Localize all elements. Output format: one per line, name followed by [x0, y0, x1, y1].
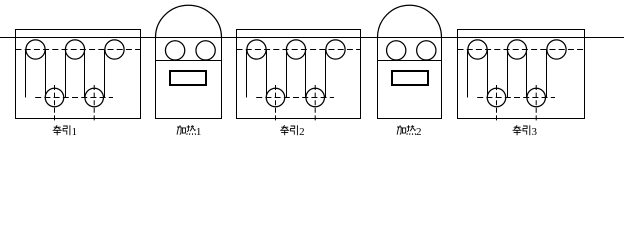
label "牵引1" under traction unit 1	[53, 125, 70, 135]
label "加热2" under heater unit 2	[397, 125, 416, 135]
svg-text:2: 2	[416, 126, 422, 138]
traction unit 2 bottom roller 2	[306, 88, 325, 107]
traction unit 2 top roller 1	[247, 40, 266, 59]
traction unit 3 bottom roller 1	[487, 88, 506, 107]
svg-text:1: 1	[196, 126, 202, 138]
traction unit 1 top roller 1	[26, 40, 45, 59]
traction unit 2 bottom roller 2 vertical center mark (dashed)	[314, 85, 316, 121]
svg-text:1: 1	[72, 126, 78, 138]
traction unit 2 top roller 2	[286, 40, 305, 59]
heater unit 2 roller 1	[387, 41, 406, 60]
svg-text:2: 2	[299, 126, 305, 138]
traction unit 2 bottom roller 1 vertical center mark (dashed)	[275, 85, 277, 121]
heater unit 2 shelf line	[378, 60, 442, 62]
traction unit 3 bottom roller 2 vertical center mark (dashed)	[535, 85, 537, 121]
heater unit 2 dome	[378, 5, 442, 37]
traction unit 3 top roller 1	[468, 40, 487, 59]
traction unit 3 bottom roller centerline (dashed)	[477, 97, 555, 99]
heater unit 1 roller 2	[196, 41, 215, 60]
traction unit 3 top roller 3	[547, 40, 566, 59]
label "牵引2" under traction unit 2	[280, 125, 297, 135]
svg-text:3: 3	[532, 126, 538, 138]
heater unit 1 roller 1	[165, 41, 184, 60]
wire line across full width	[0, 37, 624, 39]
traction unit 1 bottom roller 2	[85, 88, 104, 107]
traction unit 1 top roller 2	[65, 40, 84, 59]
heater unit 2 roller 2	[417, 41, 436, 60]
traction unit 1 bottom roller 2 vertical center mark (dashed)	[93, 85, 95, 121]
traction unit 1 top roller 3	[105, 40, 124, 59]
traction unit 2 belt lines	[247, 50, 326, 98]
traction unit 3 bottom roller 1 vertical center mark (dashed)	[496, 85, 498, 121]
traction unit 1 bottom roller 1	[45, 88, 64, 107]
traction unit 3 top roller centerline (dashed)	[458, 49, 585, 51]
traction unit 3 top roller 2	[507, 40, 526, 59]
traction unit 3 body outline	[458, 30, 585, 119]
heater unit 1 dome	[156, 5, 222, 37]
traction unit 2 top roller centerline (dashed)	[237, 49, 361, 51]
traction unit 2 body outline	[237, 30, 361, 119]
traction unit 1 belt lines	[26, 50, 105, 98]
traction unit 3 bottom roller 2	[527, 88, 546, 107]
heater unit 1 body outline	[156, 38, 222, 119]
traction unit 2 top roller 3	[326, 40, 345, 59]
label "牵引3" under traction unit 3	[513, 125, 530, 135]
heater unit 1 element box	[170, 71, 206, 85]
heater unit 2 element box	[392, 71, 428, 85]
heater unit 1 shelf line	[156, 60, 222, 62]
label "加热1" under heater unit 1	[177, 125, 196, 135]
traction unit 1 bottom roller 1 vertical center mark (dashed)	[54, 85, 56, 121]
traction unit 1 body outline	[16, 30, 141, 119]
traction unit 1 top roller centerline (dashed)	[16, 49, 141, 51]
traction unit 3 belt lines	[468, 50, 547, 98]
heater unit 2 body outline	[378, 38, 442, 119]
traction unit 2 bottom roller centerline (dashed)	[256, 97, 334, 99]
traction unit 2 bottom roller 1	[266, 88, 285, 107]
traction unit 1 bottom roller centerline (dashed)	[35, 97, 113, 99]
